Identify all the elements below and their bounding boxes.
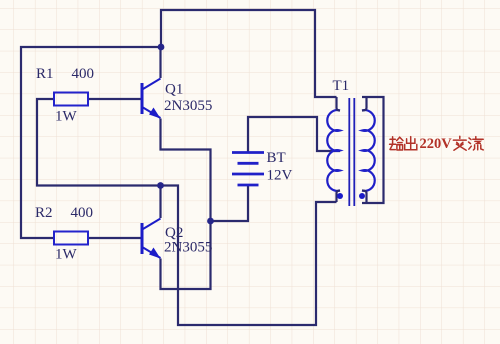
- svg-text:Q1: Q1: [165, 82, 183, 98]
- svg-text:BT: BT: [267, 150, 286, 166]
- svg-text:400: 400: [72, 66, 95, 82]
- svg-text:1W: 1W: [55, 109, 78, 125]
- svg-text:12V: 12V: [267, 168, 293, 184]
- svg-text:220V: 220V: [420, 136, 453, 152]
- svg-text:R1: R1: [36, 66, 54, 82]
- svg-text:2N3055: 2N3055: [164, 98, 212, 114]
- svg-text:1W: 1W: [55, 247, 78, 263]
- svg-text:2N3055: 2N3055: [164, 240, 212, 256]
- svg-text:400: 400: [71, 205, 94, 221]
- svg-text:R2: R2: [35, 205, 53, 221]
- svg-text:T1: T1: [333, 78, 350, 94]
